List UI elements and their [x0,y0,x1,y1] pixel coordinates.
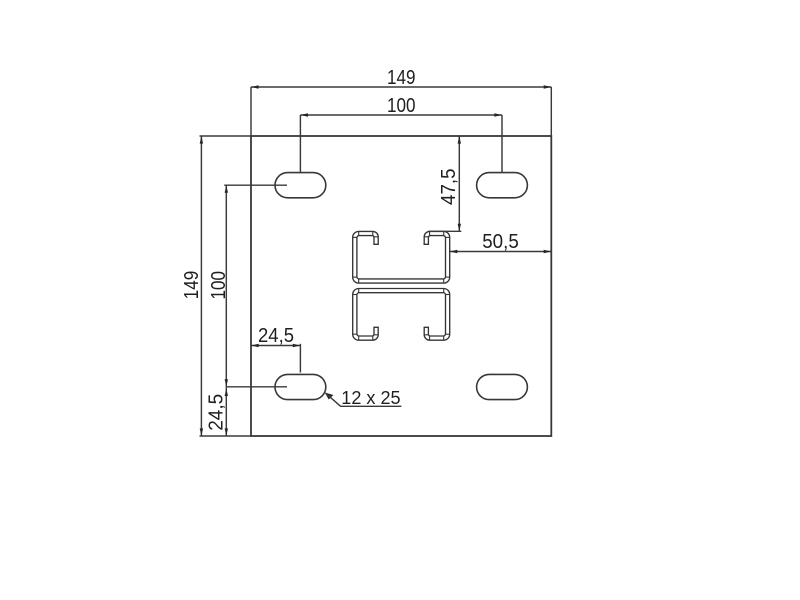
svg-text:47,5: 47,5 [437,168,460,205]
plate outline [251,136,551,436]
bend tangent ticks lower [358,336,360,340]
dim 50,5: dimension line [450,251,552,253]
slot hole top-left 12x25 [275,173,326,198]
dim 100 top: extension lines [299,115,301,172]
svg-text:149: 149 [387,66,416,89]
svg-text:100: 100 [387,94,416,117]
dim 100 left: extension lines from slot centers [224,184,287,186]
slot hole top-right 12x25 [477,173,528,198]
dim 47,5: extension line at channel top [428,230,461,232]
slot hole bottom-left 12x25 [275,374,326,399]
dim 24,5 bottom slot from edge: extension line [299,344,301,373]
svg-text:100: 100 [207,271,230,300]
strut channel cutout upper profile [353,231,450,283]
dim 24,5 bottom slot: dimension line [251,345,300,347]
svg-text:50,5: 50,5 [482,230,519,253]
dim 149 left: extension lines [200,135,252,137]
dim 24,5 left bottom: dimension line [225,387,227,436]
svg-text:24,5: 24,5 [205,394,228,431]
strut channel cutout lower profile (mirrored) [353,288,450,340]
bend tangent ticks upper [358,231,360,235]
dim 100 top: dimension line [300,114,502,116]
dim 149 top: extension lines [250,87,252,136]
slot hole bottom-right 12x25 [477,374,528,399]
svg-text:24,5: 24,5 [258,324,294,347]
dim 100 left: dimension line [225,185,227,387]
svg-text:12 x 25: 12 x 25 [341,387,400,408]
dim 47,5: dimension line [458,136,460,231]
leader 12 x 25: arrow and leader line [325,393,334,400]
dim 149 left: dimension line [200,136,202,436]
svg-text:149: 149 [180,271,203,300]
dim 149 top: dimension line [251,86,551,88]
